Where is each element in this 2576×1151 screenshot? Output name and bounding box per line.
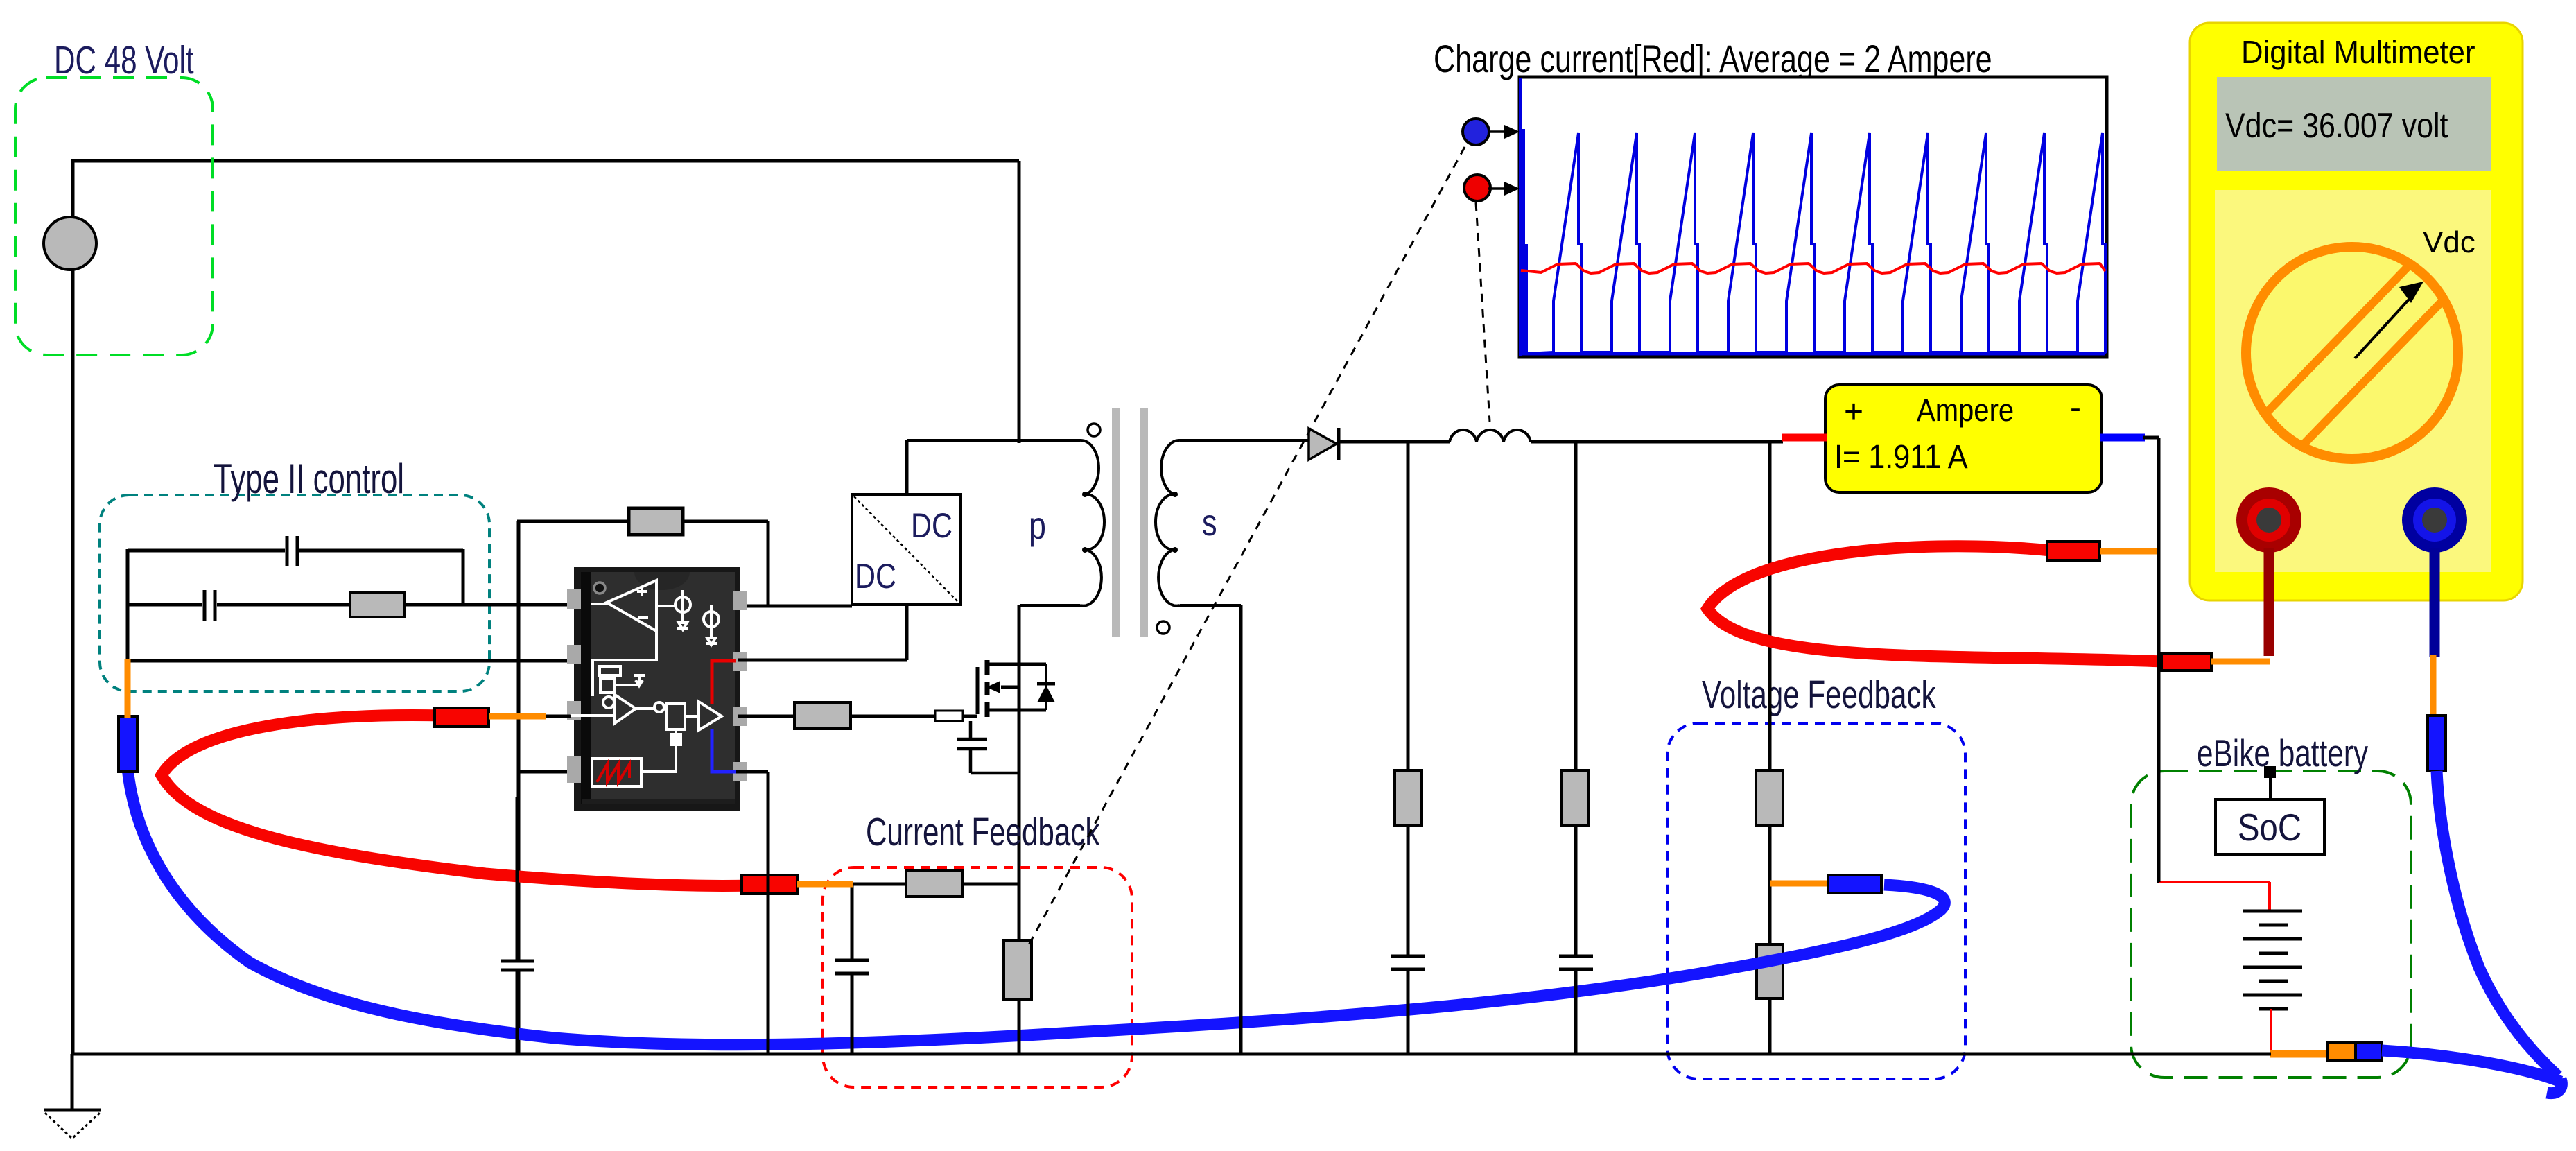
capacitor C3 on bus [501,961,534,970]
svg-text:Vdc= 36.007 volt: Vdc= 36.007 volt [2225,106,2448,145]
svg-text:-: - [2070,390,2081,426]
resistor R9 filter [906,870,962,897]
resistor R4 small gate series [935,711,963,721]
svg-text:s: s [1202,503,1217,544]
wire secondary return [1239,605,1243,1054]
node square on box [2264,766,2276,778]
transformer T1 primary winding [907,440,1104,606]
cable blue battery negative tail [2382,1050,2561,1093]
IC internal blue net [712,729,736,772]
cable red multimeter loop [1707,546,2164,661]
wire orange IC input [489,713,546,720]
wire battery negative red [2270,1009,2272,1053]
wire red meter plus [1782,434,1827,442]
connector red at output tap [2047,542,2100,560]
svg-text:Current Feedback: Current Feedback [866,810,1100,854]
diode D2 MOSFET body [1037,664,1055,710]
cable red current-feedback loop [162,716,749,886]
IC internal sawtooth generator [592,759,641,786]
svg-text:DC 48 Volt: DC 48 Volt [54,38,194,83]
wire bus to feedback resistor [517,520,629,523]
wire feedback bus vertical [517,521,521,1054]
wire battery positive red [2159,882,2270,911]
box eBike battery green dashed [2131,771,2411,1078]
wire feedback resistor to IC opamp out [683,521,852,606]
wire MOSFET source to sense resistor [1018,710,1021,940]
IC internal pin1 dot [594,582,605,594]
transistor Q1 MOSFET [977,660,1046,717]
scope frame [1520,77,2107,357]
svg-text:DC: DC [855,556,896,596]
transformer T1 secondary winding [1156,440,1310,606]
wire type II right vertical [462,549,465,606]
IC internal reference block [600,666,645,693]
diode D1 output [1309,428,1339,460]
multimeter panel [2215,190,2491,572]
svg-text:I= 1.911 A: I= 1.911 A [1834,438,1968,476]
resistor R1 feedback [629,508,683,535]
wire IC output to gate resistor [738,715,794,718]
capacitor C5 plates [1391,956,1425,969]
wire orange output tap [2100,548,2160,555]
svg-text:eBike battery: eBike battery [2197,733,2369,775]
wire overlays at cable crossings [71,485,2271,1054]
resistor R10 current sense [1004,940,1032,999]
wire orange current feedback [797,881,853,888]
ground [44,1054,101,1139]
wire probe dashed to inductor current [1476,202,1490,422]
svg-text:Digital Multimeter: Digital Multimeter [2241,34,2475,70]
block SoC [2216,799,2324,854]
capacitor C6 plates [1559,956,1593,969]
IC internal current sources [675,590,719,645]
wire bus to IC sawtooth pin [519,770,570,774]
cable blue voltage-feedback loop [128,768,1944,1045]
IC internal latch clock wire [641,729,681,772]
wire DC/DC bottom pin to IC supply [738,605,907,660]
wire type II top branch [128,549,463,553]
battery B1 cells [2243,911,2302,1009]
wire node to IC pin2 [128,659,570,663]
wire SoC link [2269,777,2272,799]
resistor R3 gate [794,702,851,729]
capacitor C7 plates [835,960,869,973]
wire MOSFET drain to primary [1018,605,1021,664]
box Current Feedback red dashed [823,867,1132,1087]
transformer T1 polarity dot primary [1088,424,1100,436]
wire current feedback top [851,883,1019,886]
multimeter LCD [2217,77,2491,171]
resistor R6 [1562,770,1589,825]
box DC 48 Volt green dashed [15,78,213,355]
capacitor C7 branch [851,884,854,1054]
wire blue meter minus [2100,434,2145,442]
scope red average trace [1521,263,2105,273]
lead red probe [2264,548,2274,656]
wire orange divider tap [1770,881,1830,887]
wire orange multimeter blue probe [2430,655,2437,717]
connector blue at divider tap [1828,875,1881,893]
lead blue probe [2430,548,2440,657]
svg-text:SoC: SoC [2238,806,2301,849]
wire bottom ground rail [71,1053,2271,1056]
wire left vertical from source to ground rail [71,159,75,1054]
box Voltage Feedback blue dashed [1667,723,1965,1079]
wire IC input stub [543,715,571,718]
meter Digital Multimeter body [2190,23,2523,600]
svg-text:Vdc: Vdc [2423,225,2475,259]
svg-text:Type II control: Type II control [214,456,404,502]
wire orange type II input [125,659,131,718]
wire gate resistor to gate [851,715,977,718]
op-amp U1 PWM controller IC body [574,567,740,811]
connector blue at multimeter probe [2428,716,2446,771]
probe red node [1464,175,1520,201]
connector red at IC input [435,708,489,727]
scope blue waveform [1520,78,2105,356]
wire sense to rail [1018,999,1021,1054]
IC pins left [567,589,581,783]
svg-text:Ampere: Ampere [1917,393,2014,429]
block DC/DC converter [852,494,961,605]
multimeter dial [2246,247,2458,459]
wire meter to battery [2143,438,2159,883]
wire IC blue pin to rail [736,772,768,1054]
transformer T1 polarity dot secondary [1157,621,1169,634]
wire type II left vertical [126,549,130,662]
capacitor C4 gate [957,721,1019,773]
resistor R8 divider bottom [1757,944,1783,998]
IC pins right [733,591,747,781]
IC internal comparator and latch [570,695,722,730]
jack red [2236,487,2301,553]
transformer T1 core [1112,408,1120,637]
capacitor C2 [204,590,215,621]
wire type II lower branch [128,603,570,607]
probe blue node [1463,119,1520,145]
connector red at multimeter probe [2161,653,2211,670]
inductor L1 [1450,430,1531,442]
connector blue at type II input [119,716,137,772]
wire divider branch [1768,442,1772,1054]
IC internal red net [712,661,736,704]
wire 48V rail drop to transformer [1018,161,1021,443]
resistor R7 divider top [1756,770,1783,825]
jack blue [2402,487,2467,553]
wire top 48V rail [73,159,1019,163]
resistor R2 type II [350,592,404,617]
wire output rail [1339,440,1783,444]
wire orange battery negative [2270,1050,2350,1058]
capacitor C1 [287,536,297,566]
capacitor C5 branch [1407,442,1410,1054]
box Type II control teal dashed [100,495,489,691]
cable blue multimeter down [2437,771,2558,1076]
source V1 DC 48 Volt circle [44,217,96,270]
resistor R5 [1395,770,1422,825]
wire orange multimeter red probe [2211,659,2270,665]
connector red at current feedback [742,872,797,896]
svg-text:Charge current[Red]: Average =: Charge current[Red]: Average = 2 Ampere [1434,37,1992,81]
svg-text:Voltage Feedback: Voltage Feedback [1702,673,1936,717]
wire probe dashed to diode current [1026,147,1465,950]
svg-text:p: p [1029,503,1046,547]
connector battery negative [2328,1042,2382,1060]
capacitor C6 branch [1574,442,1578,1054]
meter Ampere box [1825,385,2102,492]
svg-text:+: + [1844,394,1863,431]
IC internal op-amp [591,580,676,696]
wire DC/DC top pin [905,440,909,494]
svg-text:DC: DC [911,505,952,545]
